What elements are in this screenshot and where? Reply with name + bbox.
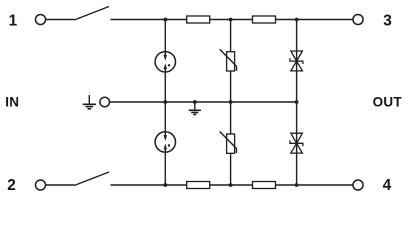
svg-text:2: 2 xyxy=(7,177,16,194)
suppressor diode D1 xyxy=(290,51,303,71)
wire switch S2 to resistor R3 xyxy=(111,184,187,186)
junction top-B xyxy=(229,18,233,22)
svg-text:IN: IN xyxy=(5,95,19,110)
wire switch S1 to resistor R1 xyxy=(111,19,187,21)
wire middle rail xyxy=(110,101,297,103)
wire column A top xyxy=(164,20,166,52)
junction mid-B xyxy=(229,100,233,104)
junction mid-C xyxy=(295,100,299,104)
wire column B middle xyxy=(230,71,232,134)
wire column A bottom xyxy=(164,152,166,185)
wire column A middle xyxy=(164,72,166,132)
wire column B top xyxy=(230,20,232,52)
svg-text:3: 3 xyxy=(383,13,392,30)
gas discharge tube F1 xyxy=(155,52,175,72)
terminal 3 xyxy=(353,14,363,24)
suppressor diode D2 xyxy=(290,133,303,153)
wire column C full xyxy=(296,20,298,186)
junction bottom-A xyxy=(163,183,167,187)
ground earth symbol left xyxy=(83,95,96,109)
junction bottom-C xyxy=(295,183,299,187)
wire resistor R1 to resistor R2 xyxy=(210,19,253,21)
ground earth symbol on middle rail xyxy=(189,100,201,114)
svg-text:OUT: OUT xyxy=(373,95,403,110)
wire terminal2 to switch S2 xyxy=(46,184,75,186)
svg-text:1: 1 xyxy=(9,13,18,30)
resistor R2 xyxy=(253,16,276,23)
wire resistor R2 to terminal 3 xyxy=(276,19,354,21)
junction top-A xyxy=(163,18,167,22)
wire column B bottom xyxy=(230,153,232,185)
terminal 2 xyxy=(35,180,45,190)
junction bottom-B xyxy=(229,183,233,187)
svg-text:4: 4 xyxy=(383,177,392,194)
wire terminal1 to switch S1 xyxy=(46,19,75,21)
gas discharge tube F2 xyxy=(155,132,175,152)
earth terminal circle xyxy=(100,97,110,107)
resistor R4 xyxy=(253,182,276,189)
wire resistor R4 to terminal 4 xyxy=(276,184,354,186)
junction top-C xyxy=(295,18,299,22)
varistor RV2 xyxy=(220,132,237,154)
wire resistor R3 to resistor R4 xyxy=(210,184,253,186)
resistor R3 xyxy=(187,182,210,189)
varistor RV1 xyxy=(220,49,237,71)
resistor R1 xyxy=(187,16,210,23)
terminal 1 xyxy=(35,14,45,24)
junction mid-A xyxy=(163,100,167,104)
terminal 4 xyxy=(353,180,363,190)
switch S2 blade xyxy=(75,172,110,185)
switch S1 blade xyxy=(75,7,110,20)
